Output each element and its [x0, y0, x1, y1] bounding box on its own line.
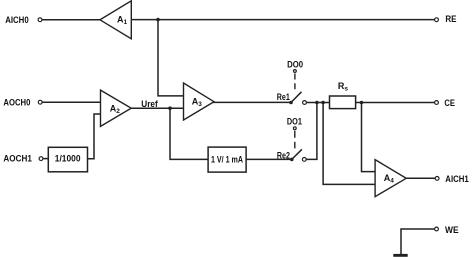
terminal RE — [435, 18, 439, 22]
wire AOCH1 to divider — [43, 158, 48, 160]
node AICH0 label — [5, 15, 29, 25]
terminal AICH1 — [435, 177, 439, 181]
wire converter output to Re2 — [246, 158, 292, 160]
svg-text:CE: CE — [444, 98, 455, 108]
svg-text:Re2: Re2 — [277, 150, 290, 160]
wire A3 output to Re1 — [213, 101, 291, 103]
block converter 1V/1mA — [208, 147, 246, 172]
node junction tap to A4 lower input — [321, 101, 325, 105]
node Uref label — [141, 99, 158, 109]
wire Rs right to CE — [356, 102, 435, 104]
wire A4 output to AICH1 — [406, 177, 435, 179]
wire main node down to A4 lower input — [323, 103, 375, 185]
wire WE to electrode — [401, 229, 434, 254]
wire DO0 dashed control line — [294, 74, 296, 91]
svg-text:WE: WE — [445, 225, 459, 235]
terminal DO1 — [293, 127, 296, 130]
wire A2 output Uref to A3 bottom input — [131, 107, 183, 109]
wire divider output to A2 feedback input — [88, 114, 101, 159]
wire Re1 to Rs — [307, 102, 330, 104]
terminal CE — [435, 101, 439, 105]
resistor Rs — [330, 96, 356, 109]
ground electrode bar — [393, 254, 407, 257]
wire Re2 output up to main line — [306, 103, 317, 160]
terminal WE — [435, 227, 439, 231]
svg-text:RE: RE — [445, 14, 456, 24]
node AOCH1 label — [3, 153, 32, 163]
node junction right of Rs — [360, 101, 364, 105]
terminal AICH0 — [38, 18, 42, 22]
node AOCH0 label — [3, 97, 30, 107]
wire DO1 dashed control line — [294, 131, 296, 149]
node DO1 label — [287, 116, 302, 126]
switch Re2 — [277, 150, 290, 160]
svg-text:1/1000: 1/1000 — [55, 154, 81, 164]
op-amp A1 — [100, 1, 131, 39]
node junction at A1 output — [156, 18, 160, 22]
op-amp A4 — [375, 160, 406, 197]
node DO0 label — [287, 60, 303, 70]
node junction on Uref line — [168, 106, 172, 110]
svg-text:AOCH0: AOCH0 — [3, 97, 30, 107]
op-amp A3 — [184, 83, 215, 120]
terminal AOCH0 — [38, 100, 42, 104]
block divider 1/1000 — [48, 147, 87, 172]
svg-text:AICH1: AICH1 — [445, 174, 469, 184]
svg-text:Re1: Re1 — [277, 92, 290, 102]
wire AOCH0 to A2 input — [42, 101, 100, 103]
wire Rs right junction down to A4 upper input — [362, 103, 376, 172]
wire Uref junction down to V/I converter — [170, 108, 208, 159]
switch Re1 — [277, 92, 290, 102]
svg-text:1 V/ 1 mA: 1 V/ 1 mA — [211, 154, 243, 164]
svg-text:AOCH1: AOCH1 — [3, 153, 32, 163]
svg-text:DO1: DO1 — [287, 116, 302, 126]
svg-text:Uref: Uref — [141, 99, 158, 109]
svg-text:AICH0: AICH0 — [5, 15, 29, 25]
op-amp A2 — [101, 90, 132, 126]
wire A1 output to RE — [131, 19, 434, 21]
wire junction down to A3 top input — [158, 20, 184, 96]
svg-text:DO0: DO0 — [287, 60, 303, 70]
wire AICH0 to A1 — [42, 19, 100, 21]
node junction left of Rs — [315, 101, 319, 105]
terminal AOCH1 — [39, 157, 43, 161]
terminal DO0 — [294, 70, 297, 73]
